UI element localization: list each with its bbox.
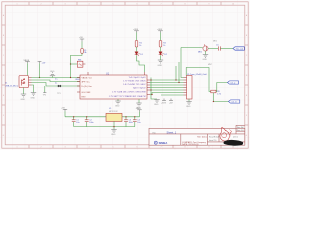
svg-text:100n: 100n [129, 122, 133, 124]
svg-text:5: 5 [113, 3, 114, 5]
svg-text:GG / SEF: GG / SEF [82, 92, 92, 94]
wire mic to ground [205, 51, 207, 54]
ground below mic [203, 55, 208, 58]
fuse F1 [81, 49, 84, 54]
svg-text:3PP / D+: 3PP / D+ [82, 81, 91, 83]
wire U1 pin2 to J2 [150, 82, 184, 84]
wire U1 pin4 to J2 [150, 87, 184, 89]
title block KiCad logo [154, 141, 167, 145]
wire VBUS down [27, 63, 29, 75]
wire U1 pin1 to J2 [150, 79, 184, 81]
wire L1 to ground [113, 121, 115, 129]
title block company/date text [182, 136, 208, 146]
wire U1 pin6 to J2 [150, 93, 184, 95]
wire vertical feed 2 [178, 62, 180, 83]
capacitor C2 [85, 116, 94, 126]
J2 pins [184, 78, 187, 96]
junction at VBUS wire [70, 77, 71, 78]
svg-text:3: 3 [65, 3, 66, 5]
wire vertical feed 1 [175, 66, 177, 80]
svg-text:1k: 1k [139, 45, 141, 47]
wire R9 bottom to label [213, 93, 228, 102]
svg-text:GND: GND [31, 97, 36, 99]
svg-text:Sheet_1: Sheet_1 [167, 131, 177, 135]
U1 left pin names [82, 77, 93, 98]
wire tap to ferrite [71, 63, 78, 65]
ground below staircase [154, 100, 159, 103]
J1 pins [29, 78, 32, 86]
power stub +5V below staircase [169, 99, 173, 101]
svg-text:1-B / TxD/M1 TX1 / HDX: 1-B / TxD/M1 TX1 / HDX [123, 84, 146, 86]
wire U1 gnd rail down [151, 78, 157, 100]
svg-text:File:: File: [153, 133, 157, 135]
svg-text:4: 4 [89, 147, 90, 149]
title block red logo stamp [220, 127, 230, 141]
capacitor C4 [133, 116, 141, 126]
svg-text:8: 8 [185, 147, 186, 149]
inductor L1 [106, 113, 122, 121]
svg-text:100n: 100n [89, 122, 93, 124]
U1 left pins [77, 78, 80, 93]
wire [160, 33, 162, 41]
svg-text:GND: GND [115, 106, 120, 108]
ground shield [21, 94, 26, 97]
wire [136, 33, 138, 41]
wire rail left riser [64, 111, 66, 117]
svg-text:DATE: 2023-05-20: DATE: 2023-05-20 [182, 143, 199, 146]
title block black logo blob [223, 140, 243, 146]
svg-text:mic_out: mic_out [236, 48, 244, 51]
resistor R1 [135, 41, 138, 48]
svg-text:+5V: +5V [79, 37, 83, 39]
resistor R2 [159, 41, 162, 48]
wire VBUS pin to U1 [32, 77, 80, 79]
wire J2 over-the-top run to R9 [186, 68, 211, 92]
svg-text:10: 10 [232, 3, 234, 5]
svg-text:GND: GND [111, 134, 116, 136]
title block frame [149, 128, 245, 145]
wire J2 to ground [188, 99, 190, 102]
power symbol VBUS [25, 62, 30, 64]
wire R9 to label [216, 83, 228, 92]
power symbol +3V3 (rail right) [137, 110, 141, 112]
wire U1 pin5 to J2 [150, 89, 184, 91]
junction [213, 101, 214, 102]
ferrite right stub pin [83, 63, 86, 65]
svg-text:GND: GND [203, 59, 208, 61]
sheet border frame [2, 2, 248, 148]
LED D2 [159, 52, 164, 56]
svg-text:1.7V TxD/B 1/B u 37W7x / WB 17: 1.7V TxD/B 1/B u 37W7x / WB 17EM [112, 91, 146, 93]
svg-text:1.7V TXD/B 1 RX 1 BUS: 1.7V TXD/B 1 RX 1 BUS [123, 80, 146, 82]
svg-text:1.7V SEP*7 9/*1 TRARK3 B/2 1 M: 1.7V SEP*7 9/*1 TRARK3 B/2 1 M/A /*M [109, 95, 146, 98]
svg-text:D-: D- [55, 82, 58, 84]
svg-text:7: 7 [161, 147, 162, 149]
wire +5V down to VBUS net [39, 63, 41, 77]
svg-text:GND: GND [21, 99, 26, 101]
ferrite bead on D- wire [58, 85, 62, 87]
ground below U1 (2) [136, 103, 141, 106]
U1 right pins [147, 80, 150, 95]
wire D- [32, 83, 80, 87]
svg-text:4: 4 [89, 3, 90, 5]
wire U1 bottom pin 2 to ground [138, 99, 140, 103]
svg-text:out_m: out_m [231, 100, 237, 103]
junction [150, 79, 151, 80]
wire D+ [32, 80, 80, 82]
svg-text:+5V: +5V [42, 62, 46, 64]
svg-text:10: 10 [232, 147, 234, 149]
wire U1 pin3 to J2 [150, 84, 184, 86]
svg-text:Rev: 1.0: Rev: 1.0 [237, 130, 244, 132]
svg-text:+5V: +5V [61, 108, 65, 110]
wire to mic [181, 47, 203, 49]
svg-text:1k: 1k [163, 45, 165, 47]
svg-text:9: 9 [209, 3, 210, 5]
svg-text:Title: demo: Title: demo [197, 136, 208, 139]
ground below J2 [186, 102, 191, 105]
svg-text:2: 2 [41, 3, 42, 5]
svg-text:MPZ2012: MPZ2012 [109, 111, 119, 113]
svg-text:J2 Conn_02x08_Odd: J2 Conn_02x08_Odd [187, 74, 206, 76]
svg-text:Kicad E.D.A.: Kicad E.D.A. [209, 136, 220, 139]
svg-text:kicad 7.0: kicad 7.0 [209, 140, 216, 142]
svg-text:9: 9 [209, 147, 210, 149]
power symbol +3V3 (led1) [134, 31, 139, 33]
title block size/rev text [209, 126, 244, 142]
wire [160, 47, 162, 52]
wire GND pin down [32, 85, 34, 93]
junction [150, 89, 151, 90]
wire mic net vertical [181, 48, 184, 78]
wire top rail [65, 116, 140, 118]
hierarchical label mic_out [233, 47, 244, 51]
U1 right pin names [109, 77, 147, 98]
svg-text:GND: GND [158, 65, 163, 67]
resistor R9 [211, 90, 216, 93]
svg-text:+3V3: +3V3 [133, 29, 139, 31]
svg-text:VBUS: VBUS [24, 60, 30, 62]
svg-text:GND: GND [186, 106, 191, 108]
svg-text:D+(D-) / ba: D+(D-) / ba [82, 86, 93, 88]
wire [136, 47, 138, 52]
power stub +3V3 below staircase [162, 99, 166, 101]
capacitor C3 [124, 116, 133, 126]
svg-text:out_p: out_p [230, 81, 236, 84]
svg-text:FB1: FB1 [78, 60, 81, 62]
ground filter [111, 130, 116, 133]
svg-text:+3V3: +3V3 [157, 29, 163, 31]
ground below U1 (1) [115, 101, 120, 104]
connector J2 [187, 76, 193, 100]
svg-text:Size: A4: Size: A4 [237, 126, 244, 129]
svg-text:SIMBA: SIMBA [159, 141, 168, 145]
junction dots staircase [175, 79, 176, 80]
wire J2 pin8 stub [161, 94, 184, 96]
junction at ferrite tap [70, 63, 71, 64]
wire bottom rail [74, 126, 135, 128]
capacitor C5 [219, 46, 221, 50]
ground above data net [52, 76, 54, 78]
U1 top pins [88, 72, 145, 75]
power symbol VBUS (rail left) [63, 109, 67, 111]
junction [113, 126, 114, 127]
svg-text:10u: 10u [137, 122, 140, 124]
svg-text:6: 6 [137, 3, 138, 5]
svg-text:10u: 10u [76, 122, 79, 124]
testpoint stub [44, 86, 46, 92]
svg-text:2: 2 [41, 147, 42, 149]
hierarchical label out2 [229, 100, 240, 104]
svg-text:1: 1 [17, 3, 18, 5]
junction [39, 77, 40, 78]
svg-text:7: 7 [161, 3, 162, 5]
microphone MK1 [203, 44, 208, 51]
wire U1 bottom pin to ground [117, 99, 119, 101]
wire LED2 to ground [160, 55, 162, 60]
wire mic to cap [208, 48, 218, 50]
ferrite bead FB1 [77, 61, 83, 67]
svg-text:+3V3: +3V3 [136, 108, 142, 110]
svg-text:GND: GND [154, 104, 159, 106]
svg-text:8: 8 [185, 3, 186, 5]
ground GND (USB) [31, 93, 36, 96]
svg-text:TxD / GpIO / GpIO: TxD / GpIO / GpIO [129, 77, 146, 79]
svg-text:5: 5 [113, 147, 114, 149]
IC U1 body [80, 75, 147, 99]
wire LED1 to U1 top [137, 55, 145, 72]
svg-text:VBUS / 5.0: VBUS / 5.0 [82, 77, 93, 79]
LED D1 [135, 52, 140, 56]
power symbol +3V3 (led2) [158, 31, 163, 33]
svg-text:1: 1 [17, 147, 18, 149]
connector J1 USB [19, 76, 29, 88]
svg-text:id: 1/1: id: 1/1 [233, 137, 238, 139]
svg-text:4.7k: 4.7k [217, 94, 221, 96]
sheet background [0, 0, 250, 150]
power symbol +5V [38, 62, 42, 64]
hierarchical label out1 [228, 81, 239, 85]
svg-text:GND: GND [50, 71, 55, 73]
svg-text:6: 6 [137, 147, 138, 149]
wire shield down [23, 88, 25, 95]
wire fuse to VBUS rail [71, 53, 83, 77]
power symbol +5V top [80, 39, 84, 42]
capacitor C1 [72, 116, 80, 126]
wire cap to label [220, 48, 233, 50]
svg-text:3: 3 [65, 147, 66, 149]
wire power to fuse [81, 42, 83, 49]
ground LED2 [158, 60, 163, 63]
svg-text:GpIO / GpIO2: GpIO / GpIO2 [133, 87, 146, 89]
svg-text:USB_B_Micro: USB_B_Micro [5, 85, 19, 88]
